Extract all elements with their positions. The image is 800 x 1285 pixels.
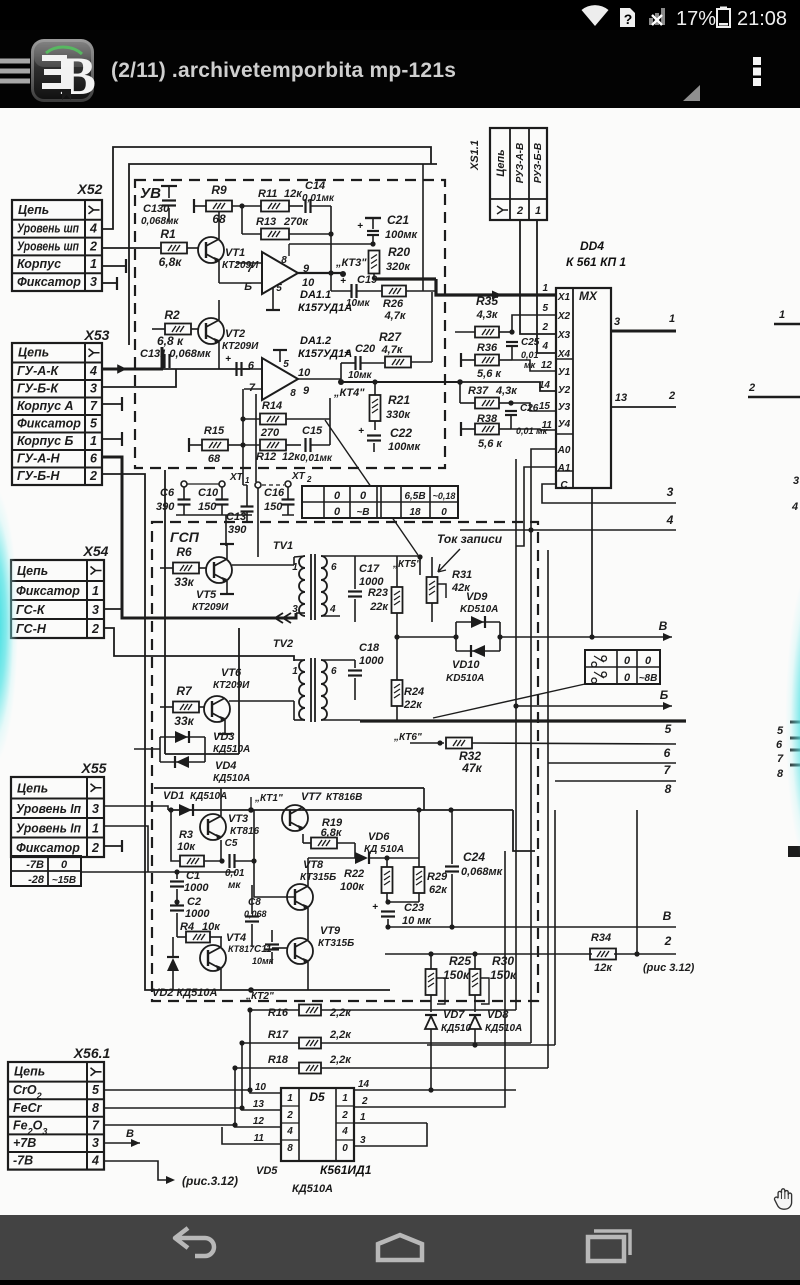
svg-text:2: 2 (664, 934, 672, 948)
svg-text:6,8к: 6,8к (321, 827, 343, 839)
annotation line KT4 to KT5 (325, 420, 418, 555)
svg-text:С130: С130 (143, 203, 170, 215)
svg-text:КТ315Б: КТ315Б (318, 938, 354, 949)
long vertical net x165 (164, 470, 166, 754)
wire X53 pin2 GU-B-N (102, 474, 168, 990)
svg-text:С25: С25 (521, 337, 540, 348)
svg-text:С26: С26 (520, 403, 539, 414)
resistor R37 (475, 398, 499, 409)
test point KT1 (248, 807, 254, 813)
voltage note table near X55 (11, 856, 81, 886)
svg-text:XT: XT (229, 472, 244, 483)
svg-text:X54: X54 (83, 543, 109, 559)
svg-text:3: 3 (92, 603, 99, 617)
switch mode table (585, 650, 660, 684)
svg-text:R1: R1 (160, 227, 176, 241)
wire D5 pin13 (242, 1043, 281, 1110)
svg-text:1: 1 (779, 309, 785, 321)
transistor VT4 (200, 945, 226, 971)
svg-text:X55: X55 (81, 760, 107, 776)
svg-text:R15: R15 (204, 425, 225, 437)
svg-text:21:08: 21:08 (737, 8, 787, 30)
svg-text:VD2 КД510А: VD2 КД510А (152, 987, 218, 999)
connector X52 table (12, 200, 102, 291)
svg-text:D5: D5 (309, 1090, 325, 1104)
svg-text:5: 5 (90, 417, 98, 431)
capacitor C17 (348, 590, 362, 592)
hamburger menu icon (0, 61, 30, 81)
bottom bus y1045 (427, 1044, 555, 1046)
svg-text:У1: У1 (558, 367, 571, 378)
svg-text:~0,18: ~0,18 (433, 491, 456, 501)
svg-text:6: 6 (248, 360, 255, 372)
wire X53 pin7 ground stub (102, 403, 122, 405)
record block bottom rail (160, 989, 390, 991)
resistor R26 (382, 286, 406, 297)
svg-text:9: 9 (303, 385, 310, 397)
svg-text:У4: У4 (558, 419, 571, 430)
svg-text:КТ209И: КТ209И (222, 341, 259, 352)
vertical x637 (636, 810, 638, 954)
multiplexer DD4 body (556, 288, 611, 488)
UV block dashed border (135, 180, 445, 468)
navigation bar (0, 1215, 800, 1280)
svg-text:VT9: VT9 (320, 925, 341, 937)
svg-text:8: 8 (92, 1101, 99, 1115)
resistor R3 (180, 856, 204, 867)
svg-text:330к: 330к (386, 409, 411, 421)
DD4 output 1 (thick) (611, 330, 676, 333)
svg-text:6: 6 (90, 452, 98, 466)
diode VD8 (469, 1016, 481, 1029)
svg-text:4,3к: 4,3к (495, 385, 518, 397)
resistor R36 (475, 355, 499, 366)
svg-text:0: 0 (624, 655, 631, 667)
svg-text:4: 4 (91, 1154, 99, 1168)
svg-text:12к: 12к (282, 451, 301, 463)
svg-text:X56.1: X56.1 (73, 1045, 111, 1061)
capacitor C14 (304, 199, 306, 213)
svg-text:150к: 150к (490, 968, 517, 982)
svg-text:КД510: КД510 (441, 1023, 471, 1034)
resistor R19 (311, 838, 337, 849)
svg-text:2: 2 (541, 322, 548, 333)
resistor R14 (260, 414, 286, 425)
svg-text:R27: R27 (379, 330, 402, 344)
svg-text:0: 0 (624, 672, 631, 684)
svg-text:1000: 1000 (184, 882, 209, 894)
thick signal wire to DD4 X1 (373, 277, 436, 280)
svg-text:4: 4 (541, 341, 548, 352)
wire X56.1 +7V arrow (104, 1142, 140, 1144)
svg-text:390: 390 (228, 524, 247, 536)
svg-text:68: 68 (208, 453, 221, 465)
wire X52 pin4 to top bus (102, 147, 431, 229)
vertical wire to caps row (255, 394, 257, 482)
measurement voltage table (302, 486, 458, 518)
signal bars with x (649, 8, 665, 25)
svg-text:VD4: VD4 (215, 760, 236, 772)
wire TV1 pin3 with arrows (296, 612, 305, 614)
svg-text:КТ817: КТ817 (228, 944, 255, 954)
svg-text:1000: 1000 (359, 655, 384, 667)
svg-text:4,7к: 4,7к (381, 344, 404, 356)
svg-text:0,01 мк: 0,01 мк (516, 426, 548, 436)
vertical block wires (253, 810, 255, 861)
svg-text:R22: R22 (344, 868, 364, 880)
resistor R15 (202, 440, 228, 451)
svg-text:(рис.3.12): (рис.3.12) (182, 1174, 238, 1188)
wire TV1 sec top rail (340, 555, 420, 557)
svg-text:С24: С24 (463, 850, 485, 864)
svg-text:R38: R38 (477, 413, 498, 425)
capacitor C22 (367, 434, 381, 436)
wire XS1.1 pin1 to DD4 X4 (537, 220, 556, 353)
svg-text:VT5: VT5 (196, 589, 217, 601)
record block top rail (168, 809, 513, 811)
svg-text:8: 8 (665, 782, 672, 796)
svg-text:33к: 33к (174, 575, 194, 589)
svg-text:Уровень Iп: Уровень Iп (16, 822, 81, 836)
svg-text:R3: R3 (179, 829, 193, 841)
svg-text:VT3: VT3 (228, 813, 248, 825)
diode VD2 (167, 958, 179, 971)
svg-text:KD510A: KD510A (460, 604, 498, 615)
wire KT5 down (419, 557, 421, 575)
DD4 A1 wire (516, 467, 556, 546)
wire D5 pin2 (354, 1045, 505, 1107)
svg-text:150: 150 (198, 501, 217, 513)
svg-text:3: 3 (614, 316, 620, 328)
svg-text:12к: 12к (594, 962, 613, 974)
svg-text:У3: У3 (558, 402, 571, 413)
svg-text:3: 3 (360, 1135, 366, 1146)
svg-text:С11: С11 (254, 944, 272, 955)
wire DA1.2 output to KT4 (298, 378, 341, 380)
resistor R38 (475, 424, 499, 435)
svg-text:R23: R23 (368, 587, 388, 599)
svg-text:R31: R31 (452, 569, 472, 581)
transistor VT5 (206, 557, 232, 583)
svg-text:КД510А: КД510А (213, 773, 250, 784)
svg-text:R30: R30 (492, 954, 514, 968)
svg-text:2: 2 (89, 469, 97, 483)
svg-text:?: ? (624, 11, 633, 27)
svg-text:12к: 12к (284, 188, 303, 200)
capacitor C13 (241, 505, 254, 507)
svg-text:С18: С18 (359, 642, 380, 654)
wire X53 pin3 GU-B-K (102, 369, 176, 387)
svg-text:4: 4 (666, 513, 674, 527)
test point KT2 (248, 987, 254, 993)
svg-text:РУЗ-Б-В: РУЗ-Б-В (533, 143, 544, 183)
left page-turn glow (0, 438, 32, 813)
wire VT6 emitter (224, 720, 226, 734)
diode bridge VD9 (455, 622, 457, 651)
svg-text:4,7к: 4,7к (384, 310, 407, 322)
DD4 C wire to line 3 (542, 484, 676, 503)
svg-text:10: 10 (302, 277, 315, 289)
svg-text:КТ209И: КТ209И (192, 602, 229, 613)
resistor R1 (161, 243, 187, 254)
input cap to DA1.2 pin6 (235, 362, 237, 376)
test point KT3 (340, 271, 346, 277)
svg-text:5: 5 (92, 1083, 100, 1097)
svg-text:VT8: VT8 (303, 859, 324, 871)
svg-text:С2: С2 (187, 896, 201, 908)
svg-text:0: 0 (441, 507, 447, 518)
resistor R20 (369, 251, 380, 274)
svg-text:10: 10 (255, 1082, 267, 1093)
svg-text:С1: С1 (186, 870, 200, 882)
svg-text:+: + (225, 354, 231, 365)
wire R38 to DD4 U4 (511, 429, 556, 430)
svg-text:„КТ3": „КТ3" (335, 257, 367, 269)
svg-text:0,01мк: 0,01мк (302, 193, 335, 204)
recents icon (588, 1237, 624, 1261)
svg-text:0,01: 0,01 (521, 350, 539, 360)
svg-text:14: 14 (539, 380, 551, 391)
svg-text:13: 13 (253, 1099, 265, 1110)
capacitor C6 (178, 498, 191, 500)
svg-text:МХ: МХ (579, 289, 598, 303)
svg-text:мк: мк (228, 880, 241, 891)
wire VT8 base (254, 885, 295, 897)
svg-text:С21: С21 (387, 213, 409, 227)
svg-text:R21: R21 (388, 393, 410, 407)
terminal XT2 circles (285, 481, 291, 487)
svg-text:Цепь: Цепь (18, 203, 49, 217)
svg-text:VT2: VT2 (225, 328, 245, 340)
svg-text:R4: R4 (180, 921, 194, 933)
title bar (0, 30, 800, 108)
svg-text:-7В: -7В (26, 859, 44, 871)
transistor VT6 (204, 696, 230, 722)
thick line 5 (360, 719, 686, 722)
svg-text:„КТ2": „КТ2" (245, 991, 274, 1002)
diode VD3 (160, 736, 205, 738)
svg-text:7: 7 (249, 382, 256, 394)
svg-text:VT6: VT6 (221, 667, 242, 679)
wire GU-A-K vertical to C131 (161, 347, 164, 369)
svg-text:В: В (663, 909, 672, 923)
resistor R16 (299, 1005, 321, 1016)
svg-text:8: 8 (287, 1143, 293, 1154)
svg-text:VT1: VT1 (225, 247, 245, 259)
svg-text:4: 4 (329, 604, 336, 615)
svg-text:0: 0 (61, 859, 68, 871)
resistor R4 (186, 932, 210, 943)
svg-text:VT4: VT4 (226, 932, 246, 944)
svg-text:10мк: 10мк (346, 298, 371, 309)
svg-text:+: + (340, 276, 346, 287)
svg-text:С23: С23 (404, 902, 424, 914)
svg-text:R6: R6 (176, 545, 192, 559)
svg-text:6,8 к: 6,8 к (157, 334, 184, 348)
svg-text:5: 5 (276, 283, 282, 294)
wire X53 pin4 GU-A-K input (thick) (102, 368, 163, 371)
svg-text:14: 14 (358, 1079, 370, 1090)
wire D5 pin11 (222, 1127, 281, 1144)
resistor R21 (370, 395, 381, 421)
wire X56.1 Fe2O3 (104, 1124, 235, 1126)
svg-text:~В: ~В (356, 507, 369, 518)
transistor VT1 (198, 237, 224, 263)
right page-turn glow (762, 505, 800, 935)
capacitor C21 (365, 217, 381, 219)
wire D5 pin10 (250, 1010, 281, 1093)
hand cursor icon (773, 1186, 795, 1212)
svg-text:5: 5 (542, 303, 548, 314)
svg-text:5,6 к: 5,6 к (478, 438, 503, 450)
svg-text:62к: 62к (429, 884, 448, 896)
wire TV1 primary top (294, 556, 305, 557)
svg-text:R36: R36 (477, 342, 498, 354)
svg-text:3: 3 (793, 475, 799, 487)
battery icon (717, 9, 730, 27)
svg-text:1: 1 (342, 1093, 348, 1104)
svg-text:18: 18 (409, 507, 421, 518)
svg-text:0,068: 0,068 (244, 909, 267, 919)
svg-text:R24: R24 (404, 686, 424, 698)
wire X55 fixator stub (104, 845, 122, 847)
capacitor C11 (265, 943, 279, 945)
svg-text:2: 2 (91, 622, 99, 636)
resistor R17 (299, 1038, 321, 1049)
resistor R2 (165, 324, 191, 335)
svg-text:2,2к: 2,2к (329, 1054, 352, 1066)
svg-text:КД510А: КД510А (485, 1023, 522, 1034)
svg-text:У2: У2 (558, 385, 571, 396)
node R9-R13 (239, 203, 244, 208)
wire VT6 to TV2 (229, 700, 294, 702)
opamp DA1.1 (262, 252, 298, 294)
resistor R32 wire (410, 742, 444, 744)
svg-text:DD4: DD4 (580, 239, 604, 253)
svg-text:КТ209И: КТ209И (213, 680, 250, 691)
svg-text:Цепь: Цепь (18, 346, 49, 360)
svg-text:2: 2 (91, 841, 99, 855)
svg-text:6,5В: 6,5В (404, 491, 425, 502)
cap row drop to GSP (225, 515, 227, 546)
wire X52 pin3 stub (102, 282, 117, 284)
wire VT5 collector (226, 544, 228, 559)
svg-text:5,6 к: 5,6 к (477, 368, 502, 380)
svg-text:С15: С15 (302, 425, 323, 437)
wire KT4 net down to R37 (459, 382, 461, 403)
svg-text:X52: X52 (77, 181, 103, 197)
svg-text:13: 13 (615, 392, 627, 404)
svg-text:Фиксатор: Фиксатор (17, 275, 81, 289)
resistor R18 (299, 1063, 321, 1074)
svg-text:R20: R20 (388, 245, 410, 259)
wire C21 node to opamp pin8 (289, 243, 373, 245)
svg-text:~15В: ~15В (52, 875, 76, 886)
svg-text:R18: R18 (268, 1054, 289, 1066)
GSP dashed border (152, 522, 538, 1001)
svg-text:КТ315Б: КТ315Б (300, 872, 336, 883)
net line 2 with R34 (385, 953, 592, 955)
svg-text:Корпус: Корпус (17, 257, 61, 271)
svg-text:Б: Б (244, 281, 252, 293)
svg-text:X1: X1 (557, 292, 571, 303)
svg-text:0: 0 (334, 506, 341, 518)
svg-text:3: 3 (90, 382, 97, 396)
svg-text:1: 1 (90, 257, 97, 271)
svg-text:10мк: 10мк (252, 956, 274, 966)
svg-text:1: 1 (542, 283, 548, 294)
diode VD4 (160, 761, 205, 763)
vertical x331 to output (330, 206, 332, 291)
wire KT4 to DD4 (341, 381, 460, 383)
net line 4 (460, 529, 676, 531)
transistor VT3 (200, 814, 226, 840)
svg-text:R26: R26 (383, 298, 404, 310)
opamp DA1.1 input wire (236, 262, 262, 264)
svg-text:1: 1 (535, 205, 541, 217)
wire TV1 secondary (321, 555, 340, 557)
capacitor C16 (282, 498, 295, 500)
wire X53 pin6 GU-A-N (thick) to GSP (102, 457, 296, 618)
svg-text:2: 2 (286, 1110, 293, 1121)
svg-text:Ток записи: Ток записи (437, 532, 503, 546)
capacitor C26 (505, 410, 517, 412)
svg-text:К561ИД1: К561ИД1 (320, 1163, 372, 1177)
line B with arrow (516, 705, 672, 707)
svg-text:1: 1 (92, 822, 99, 836)
svg-text:1: 1 (245, 476, 250, 485)
svg-text:+: + (372, 902, 378, 913)
connector X54 table (11, 560, 104, 638)
svg-text:R37: R37 (468, 385, 489, 397)
back icon (175, 1228, 214, 1256)
svg-text:С14: С14 (305, 180, 325, 192)
svg-text:КД510А: КД510А (213, 744, 250, 755)
svg-text:КТ816В: КТ816В (326, 792, 362, 803)
svg-text:-28: -28 (28, 874, 45, 886)
long vertical bus x516 (515, 459, 517, 1010)
resistor R6 (173, 563, 199, 574)
junction VD7 bottom (428, 1087, 433, 1092)
svg-text:1: 1 (292, 666, 298, 677)
svg-text:ГУ-А-К: ГУ-А-К (17, 364, 59, 378)
next page black mark (788, 846, 800, 857)
opamp DA1.2 (262, 358, 298, 400)
svg-text:7: 7 (92, 1118, 100, 1132)
opamp DA1.1 power stub (272, 288, 274, 310)
svg-text:„КТ4": „КТ4" (333, 387, 365, 399)
svg-text:В: В (659, 619, 668, 633)
resistor R7 (173, 702, 199, 713)
wire X55 row1 into block (104, 826, 148, 872)
transistor VT9 (287, 938, 313, 964)
net line V lower (387, 926, 676, 928)
svg-text:4: 4 (89, 364, 97, 378)
svg-text:TV1: TV1 (273, 540, 293, 552)
svg-text:R13: R13 (256, 216, 276, 228)
wire TV2 secondary (321, 659, 355, 661)
capacitor C20 (354, 356, 356, 370)
capacitor C1 (170, 880, 184, 882)
wire D5 pin1 (354, 1122, 427, 1124)
wire R19 to VD6 (354, 843, 356, 858)
svg-text:К 561 КП 1: К 561 КП 1 (566, 255, 626, 269)
resistor R25 (426, 969, 437, 995)
resistor R32 (446, 738, 472, 749)
capacitor C19 (350, 284, 352, 298)
capacitor C131 (163, 354, 165, 368)
svg-text:R2: R2 (164, 308, 180, 322)
